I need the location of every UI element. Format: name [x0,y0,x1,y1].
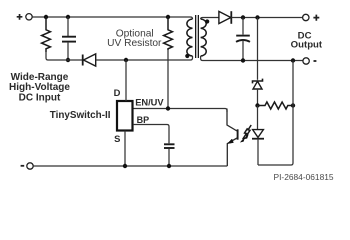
resistor R3 (bias, horizontal) [258,102,294,109]
secondary phase dot [205,19,209,23]
diode D1 (clamp, pointing left) [82,55,84,66]
node C1 top [66,15,70,19]
svg-text:BP: BP [137,115,150,125]
node C2 top [241,15,245,19]
primary phase dot [185,54,189,58]
svg-text:Output: Output [291,40,323,51]
wire secondary top to diode [201,18,219,20]
svg-text:EN/UV: EN/UV [135,98,164,108]
node UV resistor top [166,15,170,19]
wire clamp node to diode [62,59,82,61]
svg-text:S: S [114,133,120,144]
optocoupler LED [257,106,259,130]
wire top rail [32,17,192,19]
wire feedback return column [258,61,293,166]
wire R1 bottom [46,52,62,60]
capacitor C2 (output, polarized) [242,18,244,35]
wire S pin [124,131,126,167]
zener diode VR1 [253,79,263,84]
terminal - input [21,165,25,167]
node feedback return top [291,58,295,62]
terminal + input [17,14,23,20]
svg-text:DC Input: DC Input [19,93,61,104]
optocoupler phototransistor [227,109,237,132]
wire zener branch [257,18,259,80]
wire UV resistor to EN/UV node (crosses drain wire) [167,50,169,109]
wire bottom rail [33,165,227,167]
emitter arrow [228,139,234,144]
wire secondary bottom to - output [201,56,303,61]
wire D pin [125,60,127,101]
diode D2 (output rectifier, pointing right) [219,11,231,23]
TinySwitch-II U1 box [117,101,133,131]
node C3 bottom [167,164,171,168]
node C1 bottom [66,58,70,62]
transformer T1 primary winding [187,19,193,56]
node R1 top [44,15,48,19]
node resistor right [291,103,295,107]
transformer core [195,15,197,58]
wire diode to drain node [96,56,193,60]
wire EN/UV line [133,109,227,113]
node S pin bottom [123,164,127,168]
node D pin [124,58,128,62]
opto light arrows [246,125,251,136]
resistor R1 (clamp) [42,17,51,52]
terminal - output [303,58,309,64]
terminal + output [303,14,309,20]
node EN/UV [166,106,170,110]
svg-text:UV Resistor: UV Resistor [107,38,162,49]
node zener / LED / resistor [255,103,259,107]
node zener branch top [255,15,259,19]
capacitor C1 (clamp) [67,17,69,36]
wire diode to + output [231,17,302,19]
capacitor C3 (BP) [164,143,175,145]
node C2 bottom [241,58,245,62]
wire BP pin [133,125,169,144]
svg-text:TinySwitch-II: TinySwitch-II [50,110,111,121]
transformer T1 secondary winding [201,19,207,56]
svg-text:PI-2684-061815: PI-2684-061815 [274,172,334,182]
resistor R2 (UV) [164,17,173,50]
svg-text:D: D [114,87,121,98]
